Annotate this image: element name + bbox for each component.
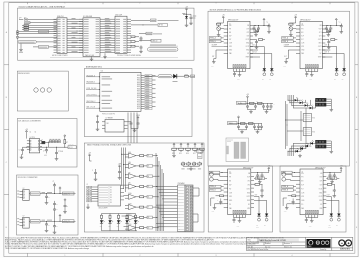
svg-text:3: 3 [216, 255, 217, 257]
svg-text:C?: C? [43, 150, 45, 152]
usb connector CN1 [54, 16, 72, 53]
svg-text:GND: GND [309, 225, 312, 227]
svg-text:NANORev3toCarrierVE.1.PVR1: NANORev3toCarrierVE.1.PVR1 [259, 239, 286, 242]
svg-text:USB_ID: USB_ID [152, 40, 159, 42]
svg-text:VCP: VCP [246, 29, 249, 31]
dcdc converter U2 [27, 137, 42, 153]
title block frame [247, 237, 353, 250]
svg-text:USB-CN1: USB-CN1 [57, 16, 64, 18]
flyback diode 5b [336, 212, 340, 227]
capacitor C16 [131, 115, 140, 129]
svg-text:PH: PH [301, 29, 303, 31]
driver 2 output wires [250, 44, 272, 67]
svg-text:1: 1 [65, 2, 66, 4]
svg-text:OUT2: OUT2 [246, 196, 250, 198]
driver 3 bulk capacitor [330, 18, 343, 33]
svg-text:LD1: LD1 [100, 226, 103, 228]
motor driver IC U4 [224, 169, 254, 215]
svg-text:5V_S: 5V_S [69, 147, 73, 149]
svg-text:R18: R18 [200, 153, 203, 155]
ground mcu cap [96, 128, 100, 131]
svg-text:+5V: +5V [267, 166, 270, 168]
flyback diode 5a [328, 212, 333, 230]
driver 4 vm capacitors [254, 166, 270, 184]
svg-text:C+: C+ [267, 22, 269, 24]
LED cluster lower feed wires [288, 143, 307, 156]
wire bus U1 to CN2 [104, 18, 115, 52]
driver 4 left labels [209, 171, 223, 176]
motor driver IC U2 [224, 21, 253, 68]
svg-text:ISN1: ISN1 [319, 192, 322, 194]
svg-text:EN: EN [301, 32, 303, 34]
driver sub-label 2 [228, 19, 238, 22]
svg-text:ARDUINO: ARDUINO [340, 247, 350, 250]
driver 3 vm capacitors [325, 26, 333, 37]
driver 3 input resistor [289, 23, 293, 27]
svg-text:C: C [274, 103, 275, 105]
svg-text:D9: D9 [147, 227, 149, 229]
capacitor row bank [49, 139, 61, 143]
svg-text:CP2: CP2 [247, 185, 250, 187]
svg-text:OUT_B: OUT_B [324, 52, 329, 54]
resistor network RN1 [303, 114, 315, 122]
svg-text:RN1: RN1 [312, 118, 315, 120]
svg-text:SLP: SLP [229, 185, 232, 187]
svg-text:CUR: CUR [229, 43, 232, 45]
section box: motor driver bottom 4 [208, 166, 272, 232]
svg-text:VIN: VIN [301, 25, 303, 27]
svg-text:GND: GND [211, 66, 214, 68]
ground reset circuit [133, 129, 137, 132]
section box: mech holes [17, 71, 68, 111]
svg-text:OUT_B: OUT_B [252, 52, 257, 54]
net label mcu left 6 [86, 106, 100, 109]
LED cluster upper ground [330, 108, 334, 111]
driver 4 ground left [212, 206, 217, 213]
svg-text:4: 4 [292, 255, 293, 257]
net label USB_VBUS [131, 24, 168, 27]
ground 3v3 sub1 [45, 201, 49, 204]
svg-text:C?: C? [19, 150, 21, 152]
bottom pins 5 [306, 215, 318, 219]
svg-text:CP2: CP2 [247, 36, 250, 38]
svg-text:OUT: OUT [255, 195, 258, 197]
mid capacitor chain [53, 201, 58, 221]
capacitor C5 [19, 147, 27, 154]
microphone connector MK1 [16, 30, 18, 34]
driver 2 flyback diode Db [270, 66, 274, 80]
svg-text:NC: NC [247, 53, 249, 55]
section box: motor drivers and indicators [208, 8, 350, 166]
driver 5 vm capacitors [326, 166, 342, 184]
microphone connector MK2 [16, 36, 57, 38]
svg-text:CP1: CP1 [319, 32, 322, 34]
wire mcu to lower blocks [128, 113, 137, 144]
net label 3V3_1 [63, 192, 75, 195]
svg-text:+5V: +5V [294, 15, 297, 17]
svg-text:GND: GND [284, 211, 287, 213]
svg-text:S0: S0 [110, 187, 112, 189]
svg-text:S6: S6 [110, 202, 112, 204]
capacitor C12 [45, 194, 50, 201]
svg-text:RN2: RN2 [312, 132, 315, 134]
svg-text:FLT: FLT [301, 39, 304, 41]
svg-text:SS34: SS34 [328, 227, 331, 229]
svg-text:GND: GND [229, 200, 232, 202]
svg-text:3V3 DC/DC CONVERTER: 3V3 DC/DC CONVERTER [18, 177, 39, 179]
svg-text:PD: PD [229, 204, 231, 206]
net label GPIO boxes [139, 32, 162, 42]
svg-text:ISN1: ISN1 [318, 43, 321, 45]
svg-text:R?: R? [66, 142, 68, 144]
svg-text:VCP: VCP [319, 177, 322, 179]
status LED cluster lower [292, 140, 331, 152]
svg-text:R15: R15 [179, 153, 182, 155]
driver 2 vref divider [253, 39, 265, 49]
svg-text:OUT1: OUT1 [319, 188, 323, 190]
svg-text:OUT1: OUT1 [246, 188, 250, 190]
module footprint drawing [226, 138, 249, 162]
svg-text:Drawn By:: Drawn By: [320, 249, 327, 251]
ground mid box A [103, 53, 107, 58]
jumper JP1 [24, 19, 57, 24]
svg-text:CP1: CP1 [247, 32, 250, 34]
inductor L3 [42, 139, 49, 144]
LED cluster upper feed wires [288, 95, 307, 108]
svg-text:D2: D2 [147, 155, 149, 157]
svg-text:5V/3.3V LINEAR REGULATION + US: 5V/3.3V LINEAR REGULATION + USB INTERFAC… [19, 6, 66, 9]
mcu decoupling caps [96, 115, 99, 128]
svg-text:S1: S1 [110, 190, 112, 192]
svg-text:VRF: VRF [229, 46, 232, 48]
crystal circuit Y1 [145, 75, 174, 78]
mounting hole H3 [47, 88, 51, 92]
power arrow 5V box F [88, 153, 91, 162]
driver 5 output wires [326, 195, 339, 212]
capacitors C2 C3 [139, 36, 143, 53]
ground near mic [19, 48, 23, 53]
svg-text:FLT: FLT [212, 56, 215, 58]
interface IC U8 [98, 185, 124, 209]
svg-text:VRF: VRF [247, 208, 250, 210]
section box: nano pin signals [84, 143, 204, 232]
svg-text:ISN2: ISN2 [318, 50, 321, 52]
title block cells [248, 242, 328, 251]
flyback diode 4b [264, 212, 268, 227]
svg-text:D7: D7 [147, 207, 149, 209]
driver 3 ground bottom [309, 73, 313, 81]
svg-text:ATMEGA4809 MCU: ATMEGA4809 MCU [86, 66, 103, 69]
title text [248, 238, 299, 242]
svg-text:4: 4 [292, 2, 293, 4]
svg-text:+3V3: +3V3 [118, 164, 122, 166]
boxed label VUSB [39, 30, 49, 33]
section box: motor driver bottom 5 [280, 166, 346, 232]
svg-text:S3: S3 [110, 195, 112, 197]
svg-text:SLP: SLP [229, 36, 232, 38]
svg-text:PD: PD [301, 204, 303, 206]
svg-text:C?: C? [53, 181, 55, 183]
driver 3 input transistor Q3 [289, 27, 296, 33]
svg-text:CP1: CP1 [247, 181, 250, 183]
mcu right net labels [145, 75, 156, 110]
svg-text:+5V: +5V [25, 129, 28, 131]
status LED cluster upper [292, 97, 332, 109]
svg-text:+5V: +5V [246, 94, 249, 96]
svg-text:SS34: SS34 [256, 227, 259, 229]
section box: 3V3 DC/DC converter [17, 175, 79, 235]
driver 5 left RC network [288, 195, 296, 205]
net label 3V3_2 [63, 220, 75, 223]
svg-text:NC: NC [320, 204, 322, 206]
svg-text:2: 2 [140, 2, 141, 4]
svg-text:R14: R14 [172, 153, 175, 155]
wire bus CN1 to U1 [71, 18, 83, 52]
net label mcu left 1 [86, 74, 100, 77]
svg-text:MICRO USB POWER: MICRO USB POWER [52, 55, 68, 57]
boxed label box F top right [197, 150, 204, 159]
diode bank row 2 [181, 162, 202, 171]
svg-text:OUT2: OUT2 [246, 46, 250, 48]
svg-text:2: 2 [140, 255, 141, 257]
driver 2 ground left bottom [211, 59, 216, 68]
svg-text:+5V: +5V [340, 166, 343, 168]
svg-text:OUT2: OUT2 [319, 196, 323, 198]
svg-text:VREF: VREF [318, 57, 322, 59]
svg-text:OSHW: OSHW [307, 246, 312, 248]
licence logo block [307, 239, 331, 248]
LED bus wires [285, 101, 306, 149]
driver 2 power arrow left [217, 15, 225, 23]
svg-text:CUR: CUR [301, 192, 304, 194]
wire mic down [20, 44, 22, 48]
svg-text:TIES OF MERCHANTABILITY OR FIT: TIES OF MERCHANTABILITY OR FITNESS FOR A… [5, 247, 89, 250]
svg-text:C+: C+ [339, 22, 341, 24]
svg-text:U?: U? [23, 188, 25, 190]
driver 5 vref label [326, 177, 339, 180]
driver sub-label 3 [300, 19, 310, 22]
net label 5V out [68, 144, 76, 149]
driver 5 fault path [283, 198, 296, 206]
svg-text:D8: D8 [147, 217, 149, 219]
capacitor C15 [128, 121, 133, 128]
power arrow vin 5V [25, 129, 36, 139]
svg-text:GND: GND [237, 79, 240, 81]
ground under U8 [86, 204, 90, 209]
section box: 5V/3.3V linear regulation [18, 6, 195, 60]
svg-text:Doc: 1.0: Doc: 1.0 [265, 246, 270, 248]
svg-text:PH: PH [229, 177, 231, 179]
svg-text:VCP: VCP [319, 29, 322, 31]
driver 2 bottom pins [234, 69, 246, 73]
driver 4 fault path [211, 198, 224, 206]
svg-text:R17: R17 [193, 153, 196, 155]
wires left of buffers [122, 154, 126, 226]
driver 3 power arrow left [289, 15, 297, 23]
svg-text:B: B [356, 97, 357, 99]
output bus 2 [40, 220, 76, 222]
driver 4 output wires [254, 195, 267, 212]
svg-text:ISN2: ISN2 [247, 200, 250, 202]
svg-text:VRF: VRF [301, 196, 304, 198]
3V3 regulator U3 [17, 188, 30, 201]
driver 3 cp capacitors [325, 29, 331, 33]
svg-text:C2: C2 [35, 132, 37, 134]
reset IC U7 [102, 118, 128, 132]
svg-text:VREF: VREF [246, 57, 250, 59]
svg-text:CUR: CUR [301, 43, 304, 45]
driver 2 input transistor Q2 [217, 27, 224, 33]
driver 4 right rc [254, 184, 264, 198]
svg-text:CP1: CP1 [320, 181, 323, 183]
mid capacitor 2 [63, 199, 68, 214]
bottom capacitor 4 [233, 218, 236, 224]
svg-text:CN2 ICSP: CN2 ICSP [115, 14, 122, 16]
driver 2 vm capacitors [253, 26, 261, 37]
flyback diode 4a [256, 212, 261, 230]
schottky diode D2 [173, 74, 185, 82]
svg-text:VIN: VIN [229, 173, 231, 175]
svg-text:ISN2: ISN2 [319, 200, 322, 202]
vertical wires top box F [121, 148, 126, 193]
ground bottom driver 4 [237, 219, 242, 227]
svg-text:S2: S2 [110, 192, 112, 194]
svg-text:GND: GND [301, 200, 304, 202]
driver 3 bottom capacitor [305, 72, 308, 78]
mcu IC U6 [100, 71, 145, 116]
svg-text:NANO PIN ANALOG/DIGITAL SIGNAL: NANO PIN ANALOG/DIGITAL SIGNALS AND USER… [87, 144, 132, 147]
svg-text:S5: S5 [110, 200, 112, 202]
bottom capacitor 5 [305, 218, 308, 224]
svg-text:U6: U6 [101, 71, 103, 73]
serial power text row [150, 45, 179, 47]
section box: 5V 3A DC/DC converter [17, 119, 77, 168]
connector circle 5a [282, 173, 292, 177]
ground dcdc left [20, 155, 24, 159]
input capacitor C10 [53, 181, 57, 193]
connector circle 4b [210, 177, 224, 181]
LED cluster lower ground [298, 150, 333, 157]
svg-text:D3: D3 [147, 166, 149, 168]
svg-text:GND: GND [301, 50, 304, 52]
mounting hole H1 [34, 88, 38, 92]
net label PWR_SERIAL [131, 19, 179, 22]
svg-text:GND: GND [283, 66, 286, 68]
svg-text:VRF: VRF [301, 46, 304, 48]
svg-text:OUT1: OUT1 [246, 39, 250, 41]
svg-text:C? 22uF: C? 22uF [58, 151, 63, 153]
3V3 regulator U4 [17, 216, 30, 229]
svg-text:PWM_B: PWM_B [282, 41, 288, 43]
driver 3 fault wire [284, 50, 296, 59]
svg-text:D5: D5 [147, 186, 149, 188]
driver 3 bottom pins [306, 69, 318, 73]
filter row 2 [228, 116, 264, 134]
power arrow +5V input [19, 17, 27, 20]
nano header CN3 [178, 182, 194, 232]
output bus wire [26, 143, 68, 148]
driver 4 pwm labels [209, 185, 223, 192]
svg-text:C: C [92, 170, 93, 172]
capacitor C23 [118, 164, 122, 180]
driver 3 pwm labels [282, 37, 296, 47]
svg-text:U8 LVL-SHIFT: U8 LVL-SHIFT [99, 207, 108, 209]
boxed label row lower [33, 46, 57, 49]
svg-text:NC: NC [248, 204, 250, 206]
svg-text:VRF: VRF [229, 196, 232, 198]
ground dcdc right [55, 157, 59, 160]
svg-text:ISN2: ISN2 [246, 50, 249, 52]
svg-text:PH: PH [301, 177, 303, 179]
svg-text:GND: GND [44, 155, 47, 157]
driver 2 cp capacitors [253, 29, 259, 33]
driver 2 bulk capacitor [258, 18, 271, 33]
resistor bank R14-R18 [172, 143, 204, 157]
driver 3 flyback diode Da [334, 66, 338, 80]
resistor network RN2 [303, 128, 315, 136]
svg-text:Revision: 1: Revision: 1 [284, 243, 292, 245]
svg-text:+3V3_P1: +3V3_P1 [63, 193, 70, 195]
svg-text:1: 1 [65, 255, 66, 257]
header J1 pads [87, 184, 99, 202]
serial power rounded label [148, 48, 179, 52]
svg-text:EN: EN [229, 181, 231, 183]
driver 3 ground left top [289, 33, 293, 36]
header CN2 [115, 14, 131, 53]
capacitor C4 [190, 14, 193, 21]
user LEDs LD1-LD5 [100, 214, 139, 231]
mounting hole H2 [40, 88, 44, 92]
svg-text:OUT: OUT [327, 195, 330, 197]
svg-text:MECH HOLES: MECH HOLES [18, 73, 30, 75]
svg-text:ISN1: ISN1 [246, 43, 249, 45]
driver 2 bottom capacitor [233, 72, 236, 78]
buffer array column [125, 151, 159, 231]
svg-text:VIN: VIN [301, 173, 303, 175]
svg-text:3: 3 [216, 2, 217, 4]
svg-text:VRF: VRF [320, 208, 323, 210]
svg-text:U?: U? [23, 216, 25, 218]
svg-text:SLP: SLP [301, 185, 304, 187]
svg-text:U7 RESET: U7 RESET [106, 118, 113, 120]
svg-text:GND: GND [229, 50, 232, 52]
label micro usb power [50, 54, 178, 57]
svg-text:+5V: +5V [185, 7, 188, 9]
svg-text:CP2: CP2 [319, 36, 322, 38]
ground 3v3 sub2 [45, 229, 49, 232]
svg-text:PWR_5V: PWR_5V [69, 144, 74, 146]
svg-text:CP2: CP2 [320, 185, 323, 187]
power arrow 3v3 1 [59, 187, 61, 194]
bottom pins 4 [234, 215, 246, 219]
svg-text:C: C [289, 200, 290, 202]
output bus 1 [40, 192, 76, 194]
arduino logo [339, 240, 352, 250]
capacitor C6 [43, 147, 48, 157]
vertical bus to connector [156, 153, 178, 231]
filter row 1 [237, 94, 275, 113]
connector circle 5b [282, 177, 296, 181]
svg-text:C1: C1 [30, 132, 32, 134]
driver 3 output wires [322, 44, 344, 67]
resistor array R1-R6 [19, 25, 57, 34]
driver 2 ground left top [217, 33, 221, 36]
ground bottom driver 5 [309, 219, 314, 227]
svg-text:LD2: LD2 [108, 226, 111, 228]
svg-text:MOTOR DRIVER MP6522 x2, 5V FIL: MOTOR DRIVER MP6522 x2, 5V FILTERS AND S… [210, 8, 262, 11]
capacitor C22 [92, 169, 97, 181]
svg-text:LD3: LD3 [117, 226, 120, 228]
